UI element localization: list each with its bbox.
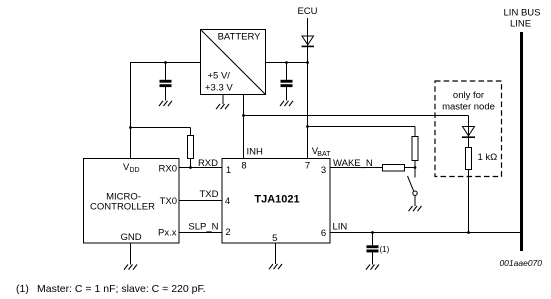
junction dot R4/LIN wire — [467, 231, 470, 234]
resistor R4 (1 kOhm master termination) — [466, 137, 472, 232]
wire VDD rail (MCU VDD up and across to battery left) — [131, 63, 201, 159]
svg-text:Master: C = 1 nF; slave: C = 2: Master: C = 1 nF; slave: C = 220 pF. — [37, 283, 206, 295]
dashed box: only for master node — [435, 81, 502, 177]
svg-text:BATTERY: BATTERY — [218, 32, 262, 43]
wire VBAT rail (y=126.5 to wake pull-up) — [308, 126, 416, 128]
svg-text:+3.3 V: +3.3 V — [205, 83, 233, 94]
junction dot wake node — [414, 166, 417, 169]
svg-text:master node: master node — [442, 101, 495, 112]
junction dot C3/LIN wire — [371, 231, 374, 234]
svg-text:SLP_N: SLP_N — [188, 222, 218, 233]
ground for pin 5 — [269, 264, 282, 269]
capacitor C3 (LIN bus capacitor) — [367, 233, 378, 265]
wire WAKE_N (pin 3) — [330, 167, 383, 169]
wire battery bottom to INH pin 8 (x=243.5) — [243, 95, 245, 159]
svg-text:INH: INH — [247, 147, 264, 158]
svg-text:GND: GND — [120, 232, 141, 243]
wire TJA1021 pin 5 ground stub — [275, 243, 277, 264]
wire LIN (pin 6 to bus) — [330, 232, 520, 234]
micro-controller U2 labels — [90, 162, 177, 243]
svg-text:TJA1021: TJA1021 — [254, 194, 299, 206]
svg-text:only for: only for — [453, 90, 484, 101]
junction dot battery wire / VBAT line — [306, 61, 309, 64]
ground for battery — [216, 104, 229, 109]
wire MCU GND stub — [130, 243, 132, 265]
junction dot C2/battery wire — [285, 61, 288, 64]
wire R2 to switch node — [405, 167, 416, 169]
svg-text:(1): (1) — [16, 283, 29, 295]
svg-text:LINE: LINE — [510, 19, 531, 30]
svg-text:5: 5 — [272, 233, 277, 244]
svg-text:BAT: BAT — [317, 151, 331, 158]
capacitor C2 (VBAT decoupling) — [281, 63, 292, 101]
diode D1 (ECU supply diode) — [302, 36, 315, 46]
diode D2 (master node termination) — [462, 116, 475, 138]
svg-text:RXD: RXD — [198, 158, 218, 169]
resistor R3 (wake pull-up to VBAT rail) — [412, 127, 418, 168]
junction dot C1/VDD rail — [164, 61, 167, 64]
battery B1 diagonal — [201, 30, 266, 95]
wire VDD to RXD pull-up (y=127.5) — [131, 127, 191, 129]
resistor R2 (wake series, horizontal) — [383, 165, 405, 172]
svg-text:8: 8 — [241, 161, 246, 172]
switch S1 (wake-up switch) — [408, 168, 418, 207]
svg-text:+5 V/: +5 V/ — [208, 70, 231, 81]
junction dot R1/RXD wire — [189, 166, 192, 169]
svg-text:LIN: LIN — [333, 222, 348, 233]
svg-text:TX0: TX0 — [160, 196, 177, 207]
ground for switch S1 — [409, 206, 422, 211]
svg-text:RX0: RX0 — [159, 164, 177, 175]
wire SLP_N (pin 2) — [179, 232, 222, 234]
ground for MCU — [124, 265, 137, 270]
wire RXD (pin 1) — [179, 167, 222, 169]
battery B1 box — [201, 30, 266, 95]
node LIN BUS LINE label — [504, 8, 541, 30]
wire battery ground stub — [222, 95, 224, 105]
svg-text:1 kΩ: 1 kΩ — [478, 152, 498, 163]
ground for C1 — [159, 101, 172, 106]
ground for C3 — [366, 265, 379, 270]
footnote (1) — [16, 283, 206, 295]
wire INH rail (y=115.5 to master-node branch) — [244, 115, 469, 117]
junction dot INH rail tap — [242, 114, 245, 117]
wire LIN bus line (thick vertical bus) — [520, 32, 523, 251]
micro-controller U2 box — [84, 159, 180, 244]
svg-text:ECU: ECU — [297, 6, 317, 17]
resistor R1 (RXD pull-up) — [188, 128, 194, 168]
junction dot VBAT rail tap — [306, 125, 309, 128]
svg-text:LIN BUS: LIN BUS — [504, 8, 541, 19]
svg-text:DD: DD — [130, 167, 140, 174]
wire battery right to VBAT line — [266, 62, 308, 64]
wire TXD (pin 4) — [179, 200, 222, 202]
svg-text:6: 6 — [321, 228, 326, 239]
svg-text:1: 1 — [226, 165, 231, 176]
svg-text:TXD: TXD — [200, 189, 219, 200]
dashed box caption — [442, 90, 495, 112]
svg-text:001aae070: 001aae070 — [499, 258, 542, 268]
svg-text:3: 3 — [321, 165, 326, 176]
svg-text:WAKE_N: WAKE_N — [333, 158, 373, 169]
svg-text:Px.x: Px.x — [158, 228, 177, 239]
svg-text:2: 2 — [225, 227, 230, 238]
net label VBAT — [312, 146, 331, 158]
svg-text:(1): (1) — [380, 245, 390, 254]
svg-text:4: 4 — [225, 196, 230, 207]
wire ECU / VBAT vertical line (x=307.5 from ECU down to pin 7) — [307, 18, 309, 159]
capacitor C1 (VDD decoupling) — [160, 63, 171, 101]
svg-text:CONTROLLER: CONTROLLER — [90, 202, 155, 213]
junction dot VDD line tap — [129, 126, 132, 129]
battery B1 value label +5 V / +3.3 V — [205, 70, 233, 93]
svg-text:7: 7 — [305, 161, 310, 172]
ground for C2 — [280, 101, 293, 106]
TJA1021 U1 box — [222, 159, 330, 244]
